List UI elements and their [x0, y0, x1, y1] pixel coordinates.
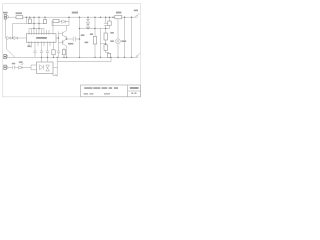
label IC type: [36, 37, 47, 39]
wire pin header rail: [29, 28, 44, 30]
wire vertical x34: [33, 17, 35, 28]
label 1u: [85, 42, 89, 44]
wire Q2 collector: [66, 46, 68, 57]
label D3: [19, 61, 23, 63]
top bus wire: [23, 16, 135, 18]
wire D2 to IC: [17, 37, 26, 39]
label C7: [68, 43, 73, 45]
label Lp1: [121, 40, 126, 42]
resistor R10: [109, 17, 111, 21]
wire diode row: [10, 37, 14, 39]
IC bottom pin stubs: [29, 43, 54, 50]
resistor R2: [44, 17, 46, 19]
wire J3 to cap: [8, 67, 13, 69]
wire left drop: [5, 19, 7, 38]
wire lower return: [57, 57, 111, 61]
cap C4: [46, 50, 49, 58]
title text line: [84, 87, 92, 89]
label 17: [27, 45, 30, 47]
bottom bus wire: [15, 56, 136, 58]
wire Q1 collector: [66, 26, 68, 31]
transistor Q2: [59, 39, 67, 46]
label net 6V: [72, 12, 78, 14]
junction dots: [12, 16, 132, 58]
snubber loop wire: [52, 17, 69, 25]
diode D1: [6, 37, 11, 40]
label 1k: [110, 32, 113, 34]
resistor R6: [94, 17, 96, 36]
zener Z2: [86, 24, 89, 28]
title sheet: [131, 93, 133, 94]
connector J1 mains input: [4, 15, 7, 17]
wire vertical x79.5: [79, 17, 81, 57]
switch blade diagonal: [6, 49, 15, 57]
cap C2: [33, 50, 36, 58]
diode D2: [14, 37, 17, 40]
wire J2 to bus: [8, 56, 15, 58]
wire lamp drop: [117, 19, 119, 39]
cap C5: [57, 44, 60, 58]
coupling cap C7: [73, 37, 79, 42]
label terminal L: [134, 10, 138, 12]
label R9: [116, 12, 121, 14]
fuse F1: [16, 16, 23, 19]
title subtext: [84, 93, 89, 94]
LED D3: [19, 63, 24, 69]
label 220V: [3, 12, 8, 14]
label R6: [90, 33, 93, 35]
wire opto output: [53, 67, 57, 69]
wire lower branch y23.5: [13, 17, 46, 38]
label F1: [16, 12, 22, 14]
snubber resistor R1: [52, 20, 53, 22]
resistor R7: [104, 33, 107, 40]
wire vertical x39: [38, 17, 40, 28]
capacitor C10: [104, 17, 108, 33]
triac gate tick: [55, 74, 58, 77]
connector J3: [4, 65, 7, 67]
snubber diode D4: [59, 20, 69, 23]
wire rail y28.5: [80, 28, 110, 30]
cap C3: [40, 50, 43, 58]
resistor R4: [52, 50, 55, 55]
resistor R5: [62, 50, 65, 55]
wire base feed: [56, 32, 59, 44]
label C8: [12, 63, 15, 65]
terminal bottom right: [135, 56, 137, 58]
title number: [130, 87, 139, 89]
lamp LP1: [116, 39, 121, 44]
opto box U2: [37, 62, 54, 74]
IC top pin stubs: [29, 29, 49, 34]
transistor Q3 block: [101, 43, 106, 45]
terminal top right: [134, 16, 137, 18]
IC pin from snubber: [52, 23, 54, 34]
opto triac triangles: [46, 65, 50, 71]
wire vertical x124.5: [124, 17, 126, 57]
wire vertical x100.5: [100, 29, 102, 58]
label La: [110, 40, 113, 42]
transistor Q1: [59, 31, 67, 38]
IC U1 body: [27, 34, 57, 43]
resistor R8: [107, 53, 110, 57]
resistor R3: [29, 17, 31, 19]
wire descender to switch: [5, 40, 7, 50]
sheet border frame: [3, 4, 141, 97]
wire opto feedback: [53, 57, 57, 75]
cap C8: [12, 66, 18, 69]
label C9: [81, 34, 85, 36]
resistor R9 on bus: [115, 15, 122, 18]
label smudges: [3, 10, 138, 65]
opto box top pins: [42, 57, 48, 62]
zener Z1: [86, 17, 89, 24]
IC inner pin ticks: [29, 34, 54, 43]
opto LED triangle: [40, 65, 44, 70]
title block: [81, 85, 141, 97]
wire LED to opto split: [22, 65, 37, 70]
connector J2: [4, 54, 7, 56]
wire emitter junction: [67, 38, 74, 40]
wire vertical x131.5: [131, 17, 133, 57]
